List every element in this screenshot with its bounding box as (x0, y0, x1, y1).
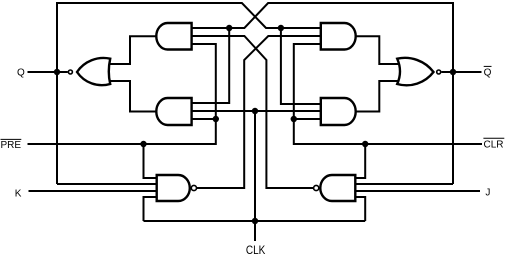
svg-text:CLK: CLK (246, 243, 266, 256)
svg-text:J: J (485, 188, 490, 199)
svg-text:PRE: PRE (1, 140, 22, 151)
svg-text:CLR: CLR (484, 139, 504, 150)
svg-text:K: K (15, 188, 22, 199)
svg-text:Q: Q (17, 67, 25, 78)
svg-text:Q: Q (484, 68, 492, 79)
